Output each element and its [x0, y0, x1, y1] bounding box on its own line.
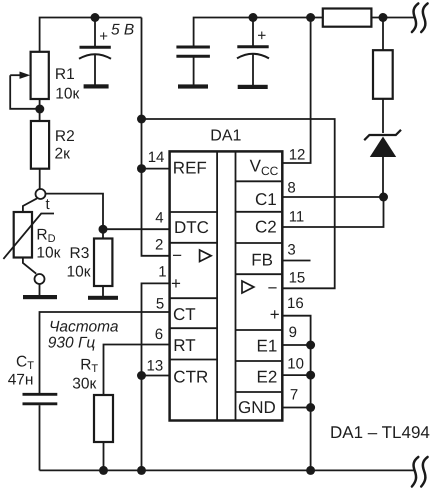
wire pin 9 E1: [283, 344, 311, 346]
capacitor filter electrolytic: [237, 18, 269, 86]
wire pin 1 / pin 13 ground column: [142, 283, 169, 470]
svg-text:16: 16: [287, 295, 304, 312]
node junction VCC column: [306, 13, 315, 22]
svg-text:E2: E2: [257, 368, 278, 387]
svg-text:DA1: DA1: [210, 128, 241, 145]
node junction REF column / pin15 line: [137, 115, 146, 124]
wire pin 5 CT: [40, 312, 169, 394]
svg-text:2: 2: [155, 237, 163, 254]
resistor R2: [31, 121, 49, 169]
wire pin 3 FB stub: [283, 260, 311, 262]
node junction pin 7: [306, 403, 315, 412]
svg-text:3: 3: [287, 241, 295, 258]
wire terminal to ground: [39, 284, 41, 296]
thermistor RD: [3, 198, 54, 273]
svg-text:1: 1: [158, 264, 166, 281]
svg-text:C2: C2: [255, 218, 277, 237]
svg-text:15: 15: [289, 270, 306, 287]
svg-text:47н: 47н: [8, 372, 34, 389]
svg-text:6: 6: [155, 326, 163, 343]
node junction R3 / DTC: [99, 225, 108, 234]
comparator 2 triangle: [242, 281, 254, 293]
wire to right vertical resistor: [382, 18, 384, 51]
node junction pin 9: [306, 341, 315, 350]
svg-text:2к: 2к: [55, 146, 71, 163]
svg-text:+: +: [257, 28, 266, 45]
node junction CT rail / RT: [99, 466, 108, 475]
break symbol bottom right: [412, 457, 428, 487]
svg-text:R1: R1: [55, 66, 75, 83]
wire pin 14 REF: [142, 168, 169, 170]
capacitor filter ceramic: [176, 47, 210, 85]
wire R2 to terminal: [39, 169, 41, 189]
node junction REF column / pin14: [137, 164, 146, 173]
ground bar under R3: [88, 296, 118, 300]
comparator 1 triangle: [200, 250, 212, 262]
wire R1 to R2: [39, 99, 41, 121]
svg-text:8: 8: [287, 179, 295, 196]
svg-text:11: 11: [289, 209, 305, 226]
terminal circle upper: [36, 189, 46, 199]
wire pin 16 ground column: [283, 316, 311, 471]
wire REF column down to pin 2: [142, 18, 169, 256]
svg-text:30к: 30к: [72, 376, 96, 393]
svg-text:R2: R2: [55, 128, 75, 145]
svg-text:930 Гц: 930 Гц: [48, 334, 96, 351]
svg-text:FB: FB: [251, 251, 273, 270]
node junction pin 10: [306, 371, 315, 380]
zener diode: [364, 130, 401, 197]
ground bar under electrolytic cap: [238, 85, 268, 89]
wire resistor to break: [371, 17, 414, 19]
wire pin 11 C2: [283, 197, 384, 227]
node junction top rail / 5V cap: [91, 13, 100, 22]
wire resistor to zener: [382, 99, 384, 133]
resistor top right horizontal: [323, 9, 372, 27]
svg-text:12: 12: [289, 147, 306, 164]
break symbol top right: [412, 4, 428, 33]
node junction rail / pin1-13 column: [137, 466, 146, 475]
wire pin 8 C1: [283, 196, 384, 198]
wire pin 10 E2: [283, 374, 311, 376]
svg-text:4: 4: [155, 210, 163, 227]
svg-text:C1: C1: [255, 190, 277, 209]
node junction rail / pin16 column: [306, 466, 315, 475]
svg-text:14: 14: [148, 149, 165, 166]
wire pin 13 CTR: [142, 375, 169, 377]
wire pin 7 GND: [283, 407, 311, 409]
svg-text:9: 9: [289, 324, 297, 341]
svg-text:10к: 10к: [36, 245, 60, 262]
svg-text:10к: 10к: [67, 263, 91, 280]
svg-text:13: 13: [147, 357, 164, 374]
node junction zener / C1 C2: [379, 193, 388, 202]
svg-text:−: −: [268, 278, 278, 297]
wire pin 4 DTC: [103, 228, 169, 230]
svg-text:R3: R3: [70, 245, 90, 262]
svg-text:CTR: CTR: [173, 368, 208, 387]
wire RT to bottom rail: [103, 442, 105, 470]
svg-text:+: +: [99, 28, 108, 45]
resistor R3: [94, 239, 112, 287]
resistor R1 potentiometer: [10, 52, 49, 109]
svg-text:Частота: Частота: [49, 319, 119, 336]
svg-text:RT: RT: [173, 336, 195, 355]
wire terminal to R3 top: [46, 194, 103, 239]
node junction right resistor column: [379, 13, 388, 22]
svg-text:E1: E1: [257, 337, 278, 356]
wire VCC column to pin 12: [283, 18, 311, 164]
svg-text:DA1 – TL494: DA1 – TL494: [330, 423, 430, 442]
svg-text:+: +: [270, 305, 280, 324]
svg-text:GND: GND: [238, 398, 276, 417]
svg-text:−: −: [172, 246, 182, 265]
ground bar under 5V cap: [84, 84, 109, 88]
svg-text:5 В: 5 В: [111, 22, 134, 39]
node junction R1 wiper: [35, 105, 44, 114]
resistor right vertical: [373, 50, 393, 99]
svg-text:5: 5: [156, 295, 164, 312]
svg-text:REF: REF: [173, 158, 207, 177]
wire REF to pin 15: [142, 119, 335, 288]
svg-text:DTC: DTC: [174, 218, 209, 237]
svg-text:CT: CT: [173, 305, 196, 324]
resistor RT: [94, 395, 113, 442]
svg-text:10: 10: [287, 356, 304, 373]
capacitor CT: [23, 394, 58, 470]
op-amp IC DA1 TL494 block: [170, 151, 283, 420]
node junction cap2: [249, 13, 258, 22]
wire VCC top rail: [194, 18, 323, 47]
wire bottom ground rail: [40, 469, 414, 471]
svg-text:10к: 10к: [55, 85, 79, 102]
svg-text:7: 7: [290, 386, 298, 403]
wire R3 to ground: [102, 286, 104, 296]
ground bar under ceramic cap: [178, 84, 208, 88]
wire pin 6 RT: [104, 345, 169, 396]
node junction pin 13: [137, 371, 146, 380]
ground bar under RD: [23, 295, 57, 299]
capacitor 5V electrolytic: [79, 18, 111, 85]
terminal circle lower: [35, 274, 45, 284]
svg-text:+: +: [171, 274, 181, 293]
wire +5V top rail: [40, 18, 142, 53]
